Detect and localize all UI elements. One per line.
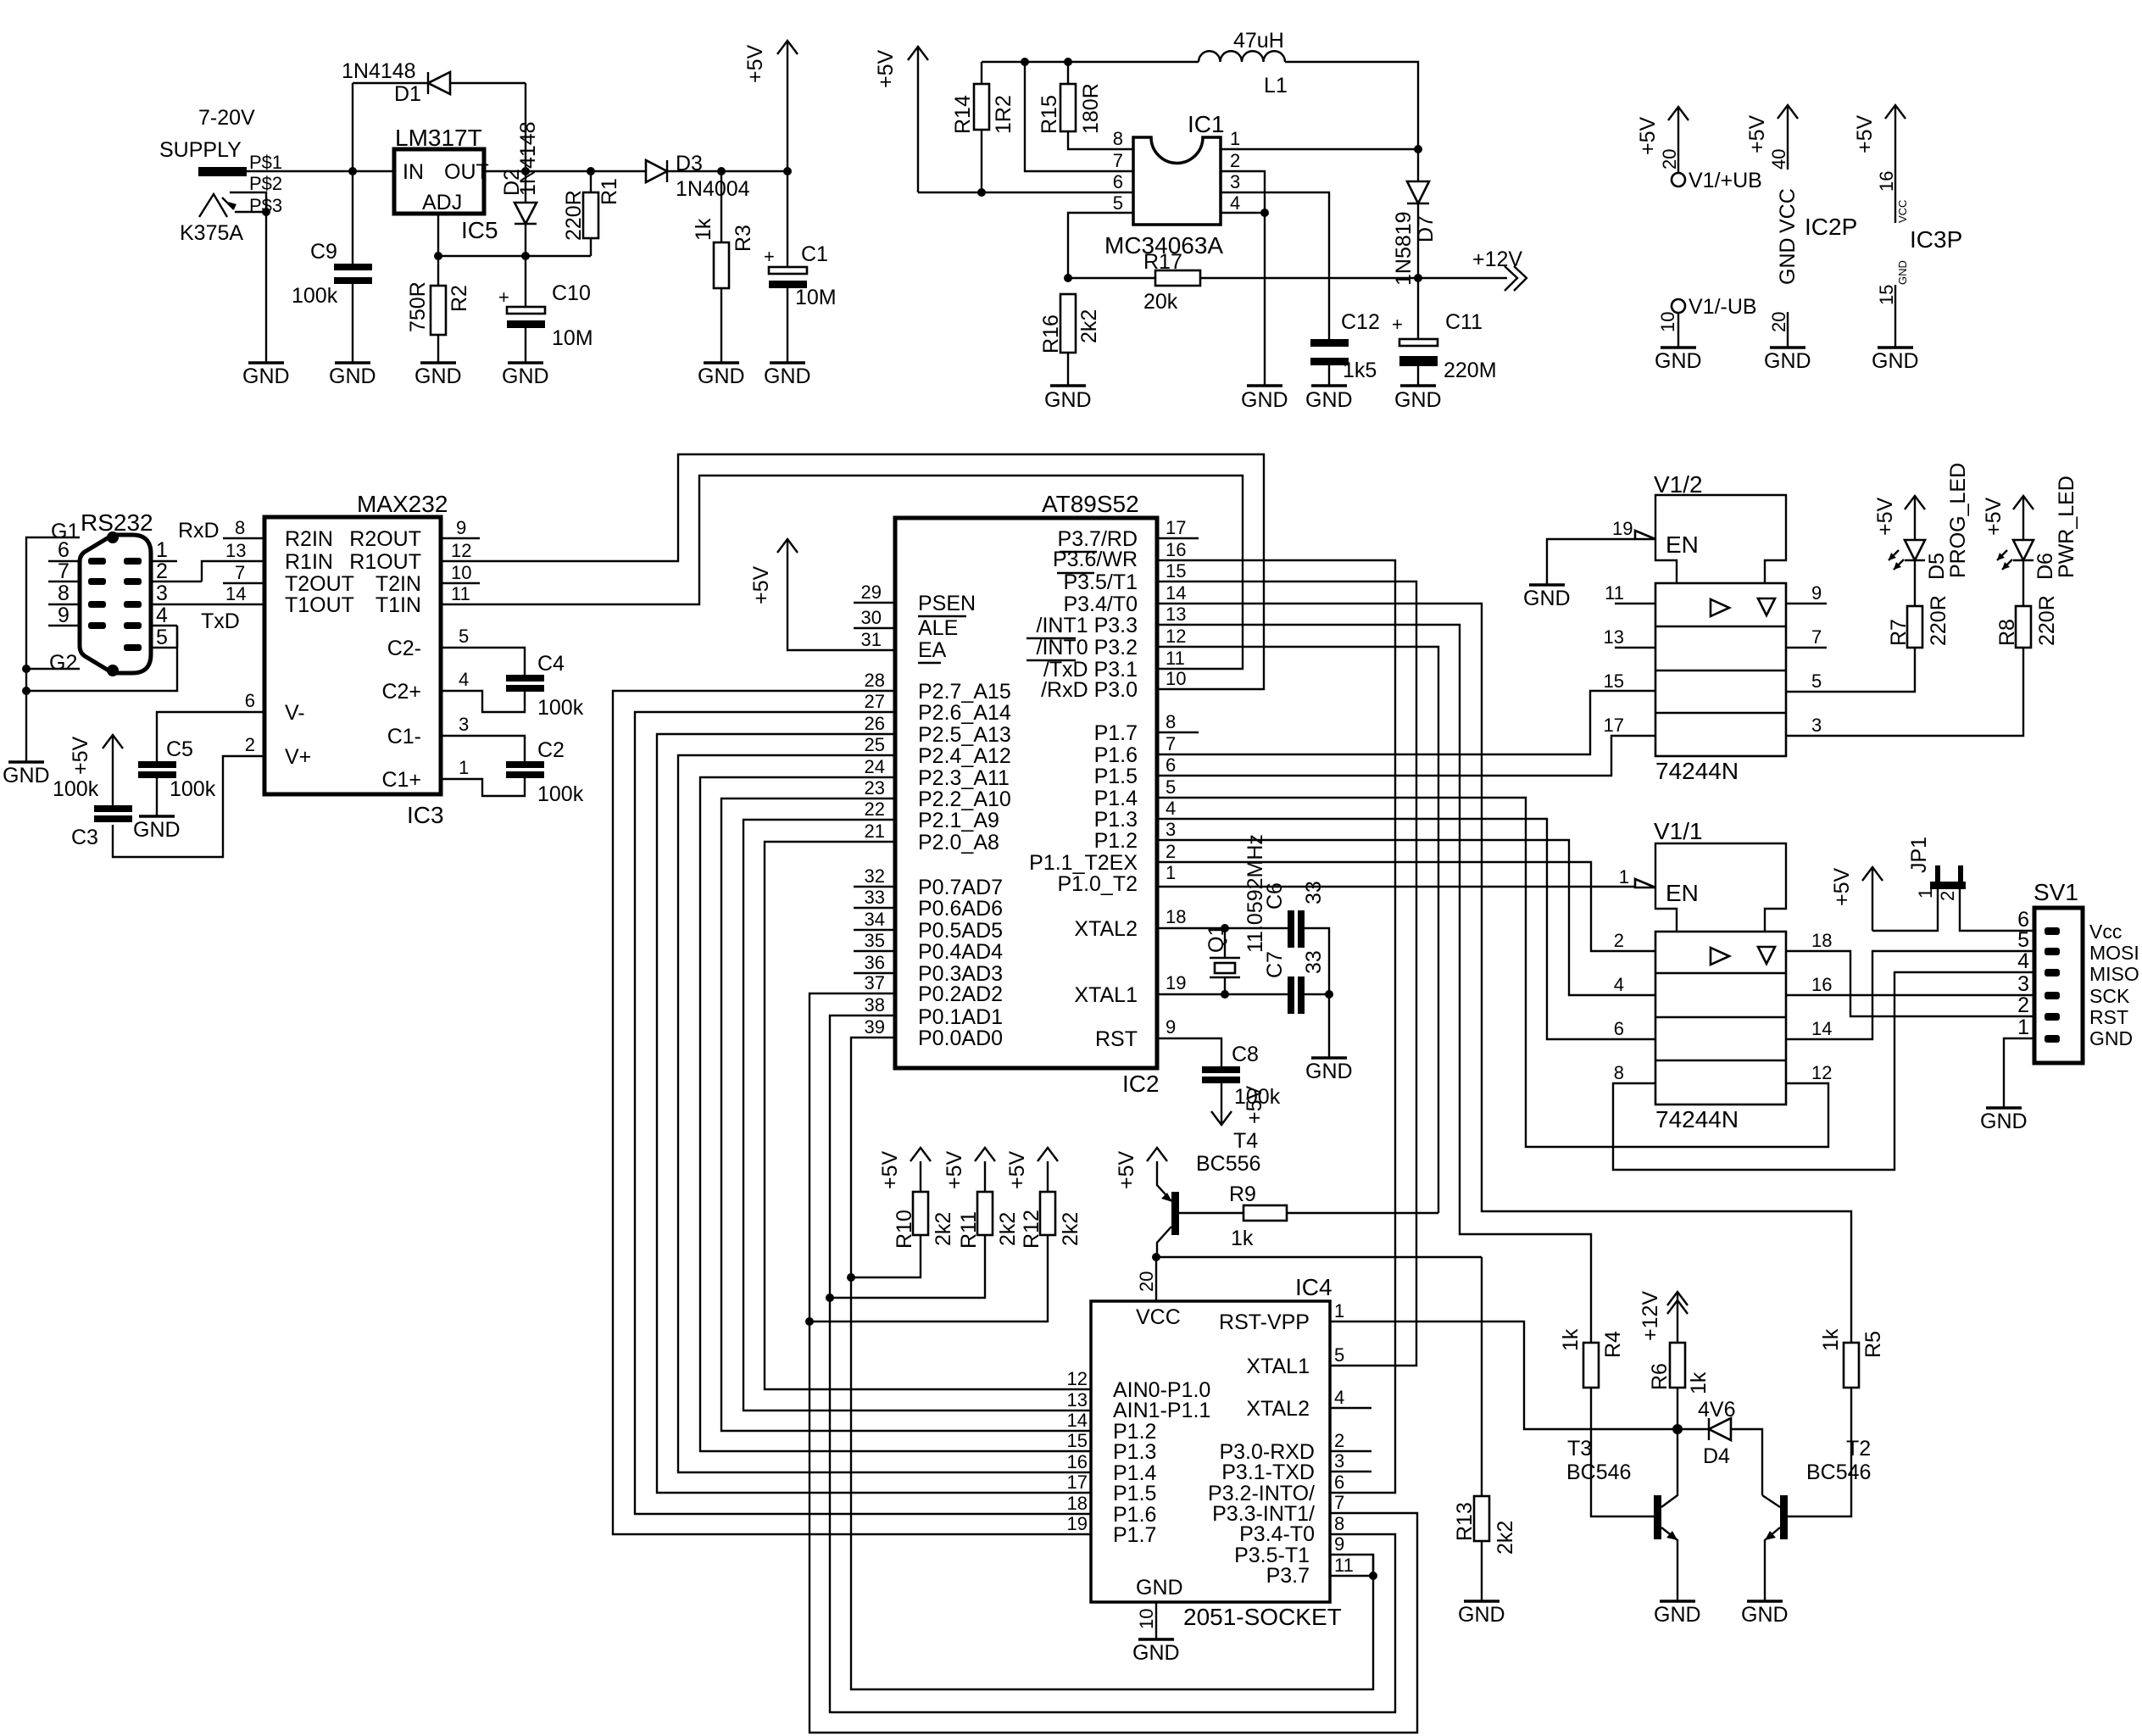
wire OUT rail (484, 170, 646, 172)
svg-text:EN: EN (1666, 880, 1699, 906)
svg-text:IC5: IC5 (461, 217, 498, 243)
svg-text:P0.2AD2: P0.2AD2 (918, 982, 1003, 1006)
svg-text:VCC: VCC (1896, 200, 1909, 223)
ground (1654, 1601, 1701, 1627)
svg-text:MAX232: MAX232 (357, 491, 448, 517)
ground (1655, 348, 1702, 373)
svg-text:11: 11 (1334, 1555, 1354, 1576)
wire top rail (982, 61, 1199, 63)
pin 11 stub (1605, 582, 1655, 604)
wire C2+ pin4 (441, 669, 525, 712)
svg-text:C1-: C1- (387, 725, 421, 748)
svg-text:ADJ: ADJ (422, 191, 462, 214)
power +12V arrow R6 (1638, 1291, 1688, 1341)
svg-text:R8: R8 (1995, 619, 2019, 646)
IC3 MAX232 box (264, 491, 448, 828)
svg-text:GND: GND (1764, 349, 1811, 373)
power +12V arrow (1472, 248, 1527, 291)
label RxD / pin 8 stub (178, 517, 264, 542)
svg-text:EN: EN (1666, 531, 1699, 558)
svg-text:GND: GND (1654, 1603, 1701, 1627)
svg-text:ALE: ALE (918, 616, 958, 640)
svg-text:1: 1 (459, 757, 469, 778)
wire P2.3 bus (700, 756, 1091, 1451)
svg-text:6: 6 (1113, 171, 1123, 192)
svg-text:7-20V: 7-20V (198, 106, 255, 130)
regulator IC5 LM317T (394, 125, 498, 243)
svg-text:IC3: IC3 (407, 802, 444, 828)
svg-text:RST-VPP: RST-VPP (1219, 1310, 1310, 1334)
svg-text:PWR_LED: PWR_LED (2055, 476, 2078, 578)
svg-text:5: 5 (459, 626, 469, 647)
svg-text:+5V: +5V (749, 565, 773, 604)
svg-text:36: 36 (865, 952, 885, 973)
ground (1980, 1108, 2028, 1133)
svg-text:1k: 1k (692, 218, 715, 241)
pin 32 stub (854, 865, 895, 887)
svg-text:GND: GND (502, 364, 549, 388)
svg-text:AT89S52: AT89S52 (1042, 491, 1139, 517)
svg-text:T2IN: T2IN (376, 572, 421, 596)
capacitor C10 10M (498, 256, 593, 362)
wire C1+ pin1 (441, 757, 525, 796)
svg-text:GND: GND (698, 364, 745, 388)
svg-text:8: 8 (1166, 711, 1176, 732)
capacitor C11 220M (1392, 278, 1497, 385)
wire pin16 to SV1 SCK (1786, 974, 2034, 995)
svg-text:GND: GND (3, 764, 50, 787)
svg-text:14: 14 (1067, 1410, 1088, 1431)
pin 7 stub (1786, 626, 1827, 648)
svg-text:3: 3 (459, 714, 469, 735)
svg-text:6: 6 (1614, 1018, 1624, 1039)
svg-text:5: 5 (1334, 1344, 1344, 1366)
node R3 (717, 167, 726, 175)
svg-text:GND: GND (1136, 1576, 1183, 1600)
svg-text:39: 39 (865, 1016, 885, 1038)
svg-text:R13: R13 (1453, 1502, 1477, 1541)
svg-text:9: 9 (1334, 1533, 1344, 1555)
svg-text:17: 17 (1067, 1472, 1088, 1493)
svg-text:16: 16 (1811, 974, 1832, 995)
LED D5 PROG_LED (1889, 463, 1970, 580)
svg-text:7: 7 (235, 562, 245, 583)
pin 3 stub (1330, 1450, 1371, 1472)
svg-text:G2: G2 (49, 651, 77, 675)
svg-text:2: 2 (1230, 150, 1240, 171)
svg-text:P0.5AD5: P0.5AD5 (918, 919, 1003, 943)
svg-text:2: 2 (1937, 891, 1958, 901)
svg-text:GND: GND (414, 364, 462, 388)
svg-text:IC1: IC1 (1188, 111, 1225, 137)
svg-text:R1: R1 (598, 178, 621, 205)
svg-text:2k2: 2k2 (1059, 1212, 1082, 1246)
svg-text:15: 15 (1166, 560, 1186, 581)
svg-text:T1OUT: T1OUT (285, 593, 354, 617)
svg-text:15: 15 (1604, 670, 1624, 692)
wire P2.0 bus (765, 821, 1091, 1389)
svg-text:38: 38 (865, 994, 885, 1015)
svg-text:P3.6/WR: P3.6/WR (1053, 548, 1138, 571)
svg-text:P2.6_A14: P2.6_A14 (918, 701, 1011, 725)
svg-text:2051-SOCKET: 2051-SOCKET (1183, 1604, 1342, 1630)
svg-text:22: 22 (865, 798, 885, 820)
wire G2 (26, 668, 80, 670)
svg-text:4: 4 (459, 669, 469, 690)
svg-text:GND: GND (2089, 1027, 2133, 1049)
svg-text:5: 5 (1811, 670, 1822, 692)
node pin7 col top (1021, 58, 1029, 66)
svg-text:P1.7: P1.7 (1113, 1523, 1156, 1547)
svg-text:9: 9 (1166, 1016, 1176, 1038)
svg-text:11: 11 (1166, 648, 1185, 669)
svg-text:/INT0 P3.2: /INT0 P3.2 (1037, 636, 1138, 659)
wire P1.2 pin3 to V1/1.4 (1157, 819, 1655, 995)
node C1 (783, 167, 792, 175)
node R11/P0.1 (826, 1294, 834, 1302)
resistor R10 2k2 (851, 1148, 955, 1277)
svg-text:IC4: IC4 (1295, 1274, 1332, 1300)
svg-text:P1.2: P1.2 (1094, 829, 1138, 853)
svg-text:R1IN: R1IN (285, 550, 333, 574)
svg-text:P1.3: P1.3 (1094, 808, 1138, 832)
wire DB9 pin2 to R1IN (202, 561, 264, 581)
pin 35 stub (854, 930, 895, 951)
svg-text:P2.3_A11: P2.3_A11 (918, 766, 1010, 790)
pin 10 stub T2IN (441, 562, 480, 583)
node R10/P0.0 (847, 1273, 855, 1282)
svg-text:11: 11 (451, 583, 470, 604)
svg-text:P0.1AD1: P0.1AD1 (918, 1005, 1003, 1029)
capacitor C5 100k (138, 737, 216, 815)
svg-text:10: 10 (1166, 668, 1186, 689)
svg-text:180R: 180R (1079, 83, 1103, 134)
svg-text:10M: 10M (795, 286, 837, 309)
svg-text:7: 7 (1811, 626, 1822, 648)
node R15 top (1064, 58, 1072, 66)
wire C2- pin5 (441, 626, 525, 675)
resistor R16 2k2 (1039, 294, 1101, 385)
svg-text:JP1: JP1 (1907, 837, 1931, 873)
ground (3, 762, 50, 787)
svg-text:R7: R7 (1887, 619, 1911, 646)
wire SV1 pin1 to GND (2004, 1038, 2034, 1107)
svg-text:P2.4_A12: P2.4_A12 (918, 744, 1011, 768)
svg-text:2k2: 2k2 (932, 1212, 955, 1246)
wire P2.1 bus (743, 798, 1091, 1410)
node pin11 (1369, 1572, 1377, 1580)
wire pin3 to R8 (1786, 648, 2023, 736)
svg-text:10M: 10M (552, 326, 593, 350)
svg-text:R2: R2 (448, 285, 471, 312)
connector SV1 (2017, 879, 2139, 1063)
svg-text:D6: D6 (2034, 553, 2057, 580)
svg-text:P1.0_T2: P1.0_T2 (1057, 872, 1138, 896)
pin 31 EA (861, 629, 882, 650)
resistor R17 20k (1068, 250, 1507, 314)
svg-text:T2: T2 (1846, 1437, 1871, 1461)
svg-text:Vcc: Vcc (2089, 921, 2122, 943)
svg-text:T3: T3 (1567, 1437, 1592, 1461)
pin 30 ALE stub (854, 607, 895, 628)
svg-text:P$1: P$1 (249, 152, 282, 173)
svg-text:13: 13 (225, 540, 246, 561)
svg-text:GND: GND (1896, 260, 1909, 285)
svg-text:MISO: MISO (2089, 963, 2139, 985)
pin 9 stub R2OUT (441, 517, 480, 538)
wire pin7 col (1025, 62, 1133, 171)
svg-text:C1+: C1+ (381, 768, 421, 792)
svg-text:C2-: C2- (387, 637, 421, 660)
svg-text:+5V: +5V (743, 44, 767, 83)
svg-text:GND: GND (1980, 1110, 2028, 1133)
svg-text:1: 1 (1230, 128, 1240, 149)
resistor R11 2k2 (830, 1148, 1020, 1298)
svg-text:+5V: +5V (69, 736, 92, 775)
svg-text:1k: 1k (1687, 1372, 1711, 1394)
wire C1- pin3 (441, 714, 525, 761)
svg-text:P0.6AD6: P0.6AD6 (918, 897, 1003, 921)
capacitor C7 33 (1263, 950, 1333, 1057)
svg-text:4: 4 (1614, 974, 1624, 995)
node pin1/D7 (1414, 145, 1422, 153)
diode D4 4V6 (1677, 1398, 1762, 1495)
svg-text:8: 8 (235, 517, 245, 538)
svg-text:C1: C1 (801, 242, 828, 266)
svg-text:40: 40 (1768, 149, 1789, 170)
wire P3.5 pin15 to socket XTAL1 (1157, 560, 1416, 1366)
svg-text:14: 14 (225, 583, 246, 604)
svg-text:P3.5/T1: P3.5/T1 (1063, 570, 1138, 594)
wire P2.2 bus (721, 777, 1091, 1431)
ground (133, 816, 181, 842)
svg-text:R12: R12 (1020, 1210, 1043, 1249)
svg-text:3: 3 (1166, 819, 1176, 840)
svg-text:1: 1 (1915, 888, 1936, 899)
svg-text:1k: 1k (1559, 1328, 1583, 1351)
svg-text:GND: GND (133, 818, 181, 842)
svg-text:XTAL1: XTAL1 (1246, 1355, 1310, 1378)
capacitor C8 100k (1202, 1043, 1281, 1125)
node R16 top (1064, 274, 1072, 282)
inductor L1 47uH (1199, 29, 1288, 97)
svg-text:GND: GND (1741, 1603, 1789, 1627)
svg-text:+5V: +5V (1745, 114, 1769, 153)
wire P1.3 pin4 to V1/1.6 (1157, 798, 1655, 1039)
wire V+ pin2 (113, 734, 264, 857)
node D7 bottom (1414, 274, 1422, 282)
resistor R7 220R (1887, 560, 1950, 648)
wire XTAL2 pin18 (1157, 906, 1289, 928)
svg-text:5: 5 (1166, 776, 1176, 798)
svg-text:100k: 100k (292, 284, 338, 308)
wire DB9 pins 4+5 return (26, 626, 177, 691)
svg-text:7: 7 (58, 559, 70, 583)
svg-text:C11: C11 (1445, 310, 1483, 334)
svg-text:2k2: 2k2 (996, 1212, 1020, 1246)
IC1 MC34063A (1104, 111, 1240, 259)
wire pin11 (1330, 1555, 1373, 1576)
svg-text:5: 5 (156, 626, 168, 649)
node R12/P0.2 (805, 1317, 814, 1326)
svg-text:PROG_LED: PROG_LED (1946, 463, 1970, 578)
wire pin9 join (1372, 1555, 1374, 1576)
wire pin19 EN to GND (1547, 518, 1655, 584)
ground (1241, 386, 1288, 412)
ground (698, 363, 745, 388)
svg-text:P$2: P$2 (249, 173, 282, 194)
svg-text:32: 32 (865, 865, 885, 887)
svg-text:12: 12 (1067, 1368, 1088, 1389)
svg-text:4: 4 (2017, 949, 2029, 973)
svg-text:1N4148: 1N4148 (342, 59, 416, 83)
svg-text:33: 33 (1302, 950, 1326, 974)
svg-text:+5V: +5V (1115, 1150, 1138, 1189)
svg-text:+: + (498, 287, 509, 308)
wire R1OUT pin12 loop to P3.0 (441, 454, 1264, 689)
pin 1 EN wedge (1619, 866, 1655, 887)
svg-text:1R2: 1R2 (992, 95, 1015, 134)
svg-text:IN: IN (403, 160, 424, 184)
svg-text:2: 2 (156, 559, 168, 583)
svg-text:XTAL1: XTAL1 (1074, 983, 1138, 1007)
node C9/IN (348, 167, 357, 175)
svg-text:1N5819: 1N5819 (1392, 211, 1416, 286)
svg-text:RxD: RxD (178, 519, 220, 542)
pin 29 PSEN stub (854, 581, 895, 603)
svg-text:P2.2_A10: P2.2_A10 (918, 787, 1011, 811)
svg-text:P2.7_A15: P2.7_A15 (918, 680, 1011, 704)
pin 33 stub (854, 887, 895, 908)
svg-text:R11: R11 (957, 1211, 981, 1249)
capacitor C2 100k (506, 738, 584, 806)
wire RST pin9 to C8 (1157, 1016, 1221, 1066)
svg-text:4: 4 (1166, 798, 1176, 819)
svg-text:GND: GND (1523, 587, 1571, 610)
wire VCC to socket pin20 (1136, 1257, 1157, 1301)
svg-text:GND: GND (1132, 1641, 1180, 1665)
svg-text:19: 19 (1067, 1513, 1088, 1534)
svg-text:31: 31 (861, 629, 882, 650)
wire V- pin6 (157, 690, 264, 761)
svg-text:17: 17 (1166, 517, 1186, 538)
wire pin5 to R7 (1786, 648, 1915, 692)
svg-text:4: 4 (156, 604, 168, 627)
svg-text:EA: EA (918, 638, 947, 662)
svg-text:1k: 1k (1231, 1227, 1254, 1250)
svg-text:VCC: VCC (1776, 188, 1800, 233)
svg-text:220R: 220R (562, 190, 586, 241)
svg-text:10: 10 (1136, 1609, 1157, 1629)
svg-text:GND: GND (1776, 237, 1800, 285)
svg-text:C2+: C2+ (381, 680, 421, 704)
wire pin5 join (176, 626, 178, 648)
svg-text:1N4148: 1N4148 (516, 121, 540, 196)
svg-text:C9: C9 (310, 240, 337, 264)
wire P2.5 bus (657, 713, 1091, 1493)
power V1/-UB GND (1657, 295, 1757, 347)
svg-text:34: 34 (865, 909, 885, 930)
power +5V arrow JP1 (1830, 867, 1938, 931)
svg-text:10: 10 (451, 562, 471, 583)
svg-text:+5V: +5V (1873, 497, 1897, 536)
svg-text:C5: C5 (166, 737, 193, 761)
svg-text:10: 10 (1657, 312, 1678, 332)
svg-text:R14: R14 (951, 95, 975, 134)
diode D2 1N4148 (500, 121, 540, 256)
svg-text:L1: L1 (1264, 74, 1288, 97)
power +5V arrow D5 (1873, 496, 1925, 536)
svg-text:C8: C8 (1232, 1043, 1259, 1066)
svg-text:LM317T: LM317T (395, 125, 482, 151)
diode D1 1N4148 (342, 59, 526, 106)
connector X1 RS232 DB9 (48, 509, 264, 676)
svg-text:37: 37 (865, 972, 885, 993)
wire ADJ row (438, 255, 591, 257)
transistor T3 BC546 (1566, 1429, 1677, 1600)
svg-text:D7: D7 (1414, 215, 1438, 242)
svg-text:SCK: SCK (2089, 985, 2130, 1007)
svg-text:RST: RST (2089, 1006, 2128, 1028)
wire ADJ (437, 214, 439, 256)
svg-text:V+: V+ (285, 745, 311, 769)
svg-text:GND: GND (764, 364, 811, 388)
capacitor C9 100k (292, 171, 372, 362)
svg-text:19: 19 (1166, 972, 1186, 993)
svg-text:11: 11 (1605, 582, 1624, 604)
svg-text:R5: R5 (1861, 1331, 1885, 1358)
svg-text:R3: R3 (732, 225, 755, 252)
svg-text:1: 1 (1166, 862, 1176, 883)
wire D1 right leg (525, 83, 526, 171)
svg-text:RS232: RS232 (81, 509, 153, 536)
svg-text:15: 15 (1876, 285, 1897, 305)
ground (1305, 386, 1353, 412)
wire P1.4 pin5 to V1/1.12 (1157, 776, 1828, 1147)
svg-text:27: 27 (865, 691, 885, 712)
wire XTAL1 pin19 (1157, 972, 1289, 994)
svg-text:K375A: K375A (180, 221, 243, 245)
svg-text:8: 8 (58, 581, 70, 605)
capacitor C3 100k (53, 777, 132, 849)
resistor R3 1k (692, 171, 755, 362)
svg-text:220R: 220R (1927, 595, 1950, 646)
svg-text:C2: C2 (537, 738, 565, 762)
svg-text:35: 35 (865, 930, 885, 951)
svg-text:R2OUT: R2OUT (349, 527, 421, 551)
svg-text:+5V: +5V (943, 1150, 966, 1189)
svg-text:C6: C6 (1263, 882, 1287, 910)
svg-text:XTAL2: XTAL2 (1074, 917, 1138, 941)
wire P3.2 pin12 to R9 (1157, 626, 1438, 1213)
svg-text:R15: R15 (1038, 95, 1061, 134)
svg-text:XTAL2: XTAL2 (1246, 1397, 1310, 1421)
wire P0.1 pin38 bus (830, 994, 1395, 1712)
buffer V1/2 74244N (1654, 471, 1786, 784)
svg-text:20: 20 (1136, 1271, 1157, 1292)
svg-text:V1/-UB: V1/-UB (1689, 295, 1757, 319)
svg-text:74244N: 74244N (1655, 1106, 1739, 1132)
svg-text:GND: GND (329, 364, 376, 388)
svg-text:13: 13 (1604, 626, 1624, 648)
pin 4 XTAL2 stub (1330, 1387, 1371, 1408)
transistor T4 BC556 (1115, 1129, 1260, 1257)
svg-text:V1/+UB: V1/+UB (1689, 169, 1762, 192)
svg-text:17: 17 (1604, 715, 1624, 736)
svg-text:2k2: 2k2 (1077, 309, 1101, 343)
resistor R2 750R (406, 256, 471, 362)
svg-text:220M: 220M (1444, 359, 1497, 382)
